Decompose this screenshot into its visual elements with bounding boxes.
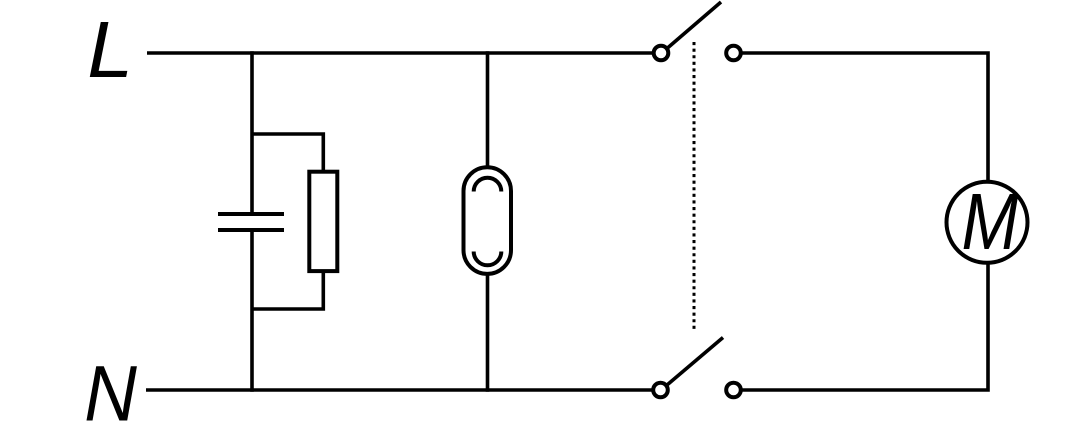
motor M1 circle [947,182,1028,263]
capacitor C1 [218,214,284,230]
switch S1a contact circle right [726,46,741,61]
mechanical linkage dotted line [693,42,696,332]
wire L top rail [147,51,654,55]
switch S1a lever [668,2,722,48]
svg-text:L: L [87,5,133,95]
wire resistor branch bottom [252,271,323,309]
switch S1b contact circle left [653,383,668,398]
neon lamp E1 envelope [464,167,512,274]
svg-text:M: M [961,177,1018,266]
wire RC branch vertical lower [250,232,254,392]
wire neon lamp bottom lead [486,273,490,392]
wire RC branch vertical upper [250,51,254,212]
wire resistor branch top [252,134,323,172]
resistor R1 [309,172,337,271]
motor M1 label [961,177,1018,266]
svg-text:N: N [84,350,137,429]
switch S1b contact circle right [726,383,741,398]
node L [87,5,133,95]
wire bottom right rail [741,262,988,391]
switch S1a contact circle left [654,46,669,61]
wire neon lamp top lead [486,51,490,168]
wire N bottom rail [146,388,653,392]
neon lamp E1 bottom electrode [474,252,502,266]
switch S1b lever [667,338,723,386]
neon lamp E1 top electrode [474,178,502,192]
node N [84,350,137,429]
wire top right rail [741,53,988,183]
